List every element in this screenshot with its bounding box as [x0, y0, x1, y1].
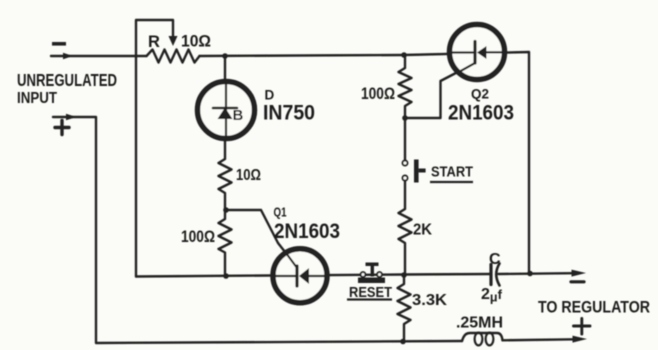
svg-text:2N1603: 2N1603	[448, 101, 514, 125]
svg-text:RESET: RESET	[349, 284, 392, 301]
svg-text:10Ω: 10Ω	[236, 167, 261, 184]
svg-text:Q1: Q1	[274, 206, 287, 220]
svg-text:R: R	[148, 33, 160, 51]
svg-text:2K: 2K	[413, 222, 432, 239]
svg-text:10Ω: 10Ω	[181, 33, 211, 51]
svg-text:3.3K: 3.3K	[412, 292, 447, 309]
svg-text:C: C	[489, 251, 501, 268]
svg-text:2N1603: 2N1603	[274, 220, 340, 243]
svg-text:Q2: Q2	[471, 87, 489, 102]
svg-text:.25MH: .25MH	[456, 315, 503, 332]
svg-text:START: START	[431, 164, 473, 181]
svg-text:100Ω: 100Ω	[181, 228, 215, 246]
svg-text:UNREGULATED: UNREGULATED	[17, 70, 117, 90]
svg-text:B: B	[233, 107, 244, 124]
svg-text:100Ω: 100Ω	[361, 85, 395, 103]
svg-text:IN750: IN750	[263, 101, 315, 125]
svg-text:TO REGULATOR: TO REGULATOR	[538, 299, 650, 317]
svg-text:INPUT: INPUT	[17, 90, 57, 107]
